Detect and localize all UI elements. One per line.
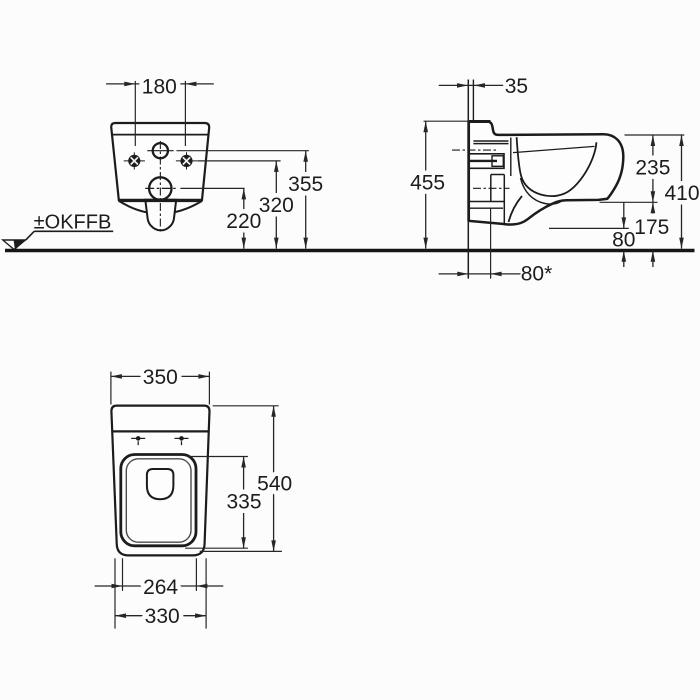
svg-text:180: 180 xyxy=(142,75,177,98)
svg-text:220: 220 xyxy=(226,210,261,233)
svg-text:330: 330 xyxy=(145,605,180,628)
svg-text:235: 235 xyxy=(635,157,670,180)
svg-text:540: 540 xyxy=(257,472,292,495)
svg-text:320: 320 xyxy=(259,194,294,217)
svg-text:350: 350 xyxy=(143,366,178,389)
svg-text:175: 175 xyxy=(634,216,669,239)
svg-text:335: 335 xyxy=(226,490,261,513)
svg-text:410: 410 xyxy=(664,182,699,205)
svg-text:264: 264 xyxy=(143,576,178,599)
svg-text:±OKFFB: ±OKFFB xyxy=(34,211,112,233)
svg-text:80*: 80* xyxy=(521,262,553,285)
svg-text:35: 35 xyxy=(505,75,528,98)
svg-text:455: 455 xyxy=(410,172,445,195)
svg-text:355: 355 xyxy=(288,173,323,196)
svg-text:80: 80 xyxy=(612,228,635,251)
